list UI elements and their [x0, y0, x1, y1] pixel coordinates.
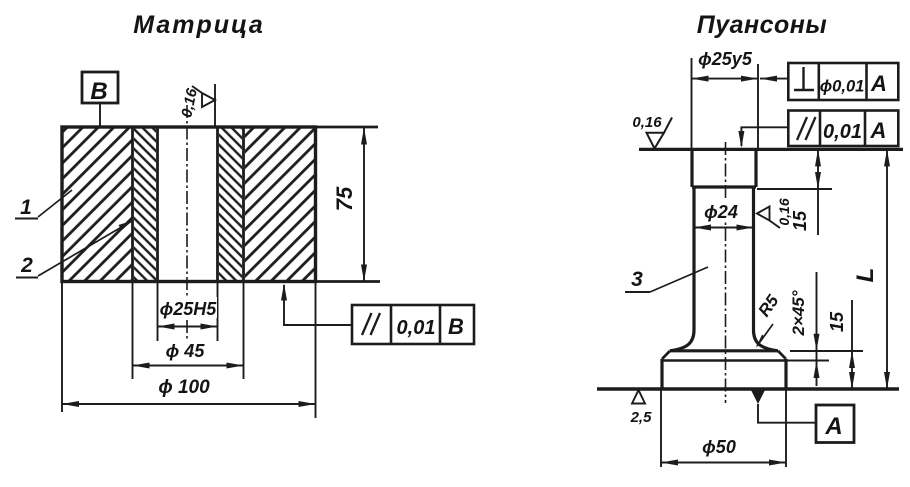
svg-text:15: 15: [790, 210, 810, 231]
svg-text:0,01: 0,01: [823, 121, 862, 143]
svg-text:2,5: 2,5: [630, 409, 653, 426]
svg-text:2: 2: [20, 254, 33, 277]
svg-text:А: А: [870, 71, 887, 96]
svg-text:Матрица: Матрица: [133, 11, 265, 39]
svg-text:Пуансоны: Пуансоны: [697, 11, 828, 39]
svg-text:0,16: 0,16: [632, 114, 662, 131]
svg-text:15: 15: [827, 311, 847, 332]
svg-text:В: В: [448, 314, 464, 339]
svg-text:0,01: 0,01: [397, 317, 436, 339]
svg-text:ϕ25у5: ϕ25у5: [698, 49, 753, 69]
svg-text:А: А: [824, 413, 842, 440]
svg-text:0,16: 0,16: [178, 86, 201, 119]
svg-text:L: L: [852, 268, 879, 283]
svg-text:ϕ 45: ϕ 45: [166, 341, 206, 361]
svg-text:R5: R5: [754, 291, 782, 320]
svg-text:3: 3: [631, 268, 643, 291]
svg-text:75: 75: [332, 186, 357, 211]
svg-text:ϕ25Н5: ϕ25Н5: [160, 299, 218, 319]
svg-text:2×45°: 2×45°: [789, 290, 808, 336]
svg-text:ϕ0,01: ϕ0,01: [820, 78, 865, 96]
svg-text:1: 1: [20, 196, 32, 219]
svg-text:ϕ50: ϕ50: [702, 437, 736, 457]
svg-text:А: А: [870, 118, 887, 143]
svg-text:В: В: [90, 78, 107, 105]
svg-text:ϕ24: ϕ24: [704, 202, 738, 222]
svg-text:ϕ 100: ϕ 100: [158, 377, 210, 398]
